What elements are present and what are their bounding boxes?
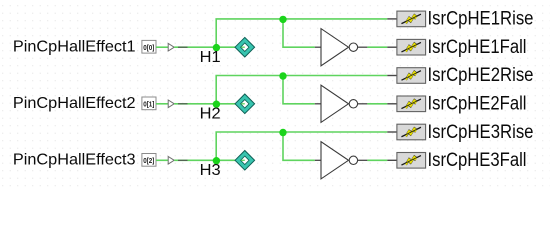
svg-text:IsrCpHE2Fall: IsrCpHE2Fall	[428, 94, 527, 115]
junction on rail	[279, 129, 286, 136]
wire pin arrow to node H2	[174, 103, 245, 105]
pin stub	[178, 159, 188, 161]
svg-text:0[1]: 0[1]	[143, 102, 154, 109]
svg-text:IsrCpHE1Fall: IsrCpHE1Fall	[428, 37, 527, 58]
wire pin arrow to node H3	[174, 159, 245, 161]
inverter U2	[321, 85, 367, 122]
interrupt block IsrCpHE1Fall	[387, 37, 526, 58]
junction on rail	[279, 16, 286, 23]
svg-text:IsrCpHE3Fall: IsrCpHE3Fall	[428, 150, 527, 171]
svg-text:H3: H3	[200, 162, 221, 179]
interrupt block IsrCpHE2Fall	[387, 94, 526, 115]
pin label PinCpHallEffect3	[13, 152, 136, 169]
label H2	[200, 106, 221, 123]
svg-text:IsrCpHE2Rise: IsrCpHE2Rise	[428, 65, 534, 86]
svg-text:IsrCpHE3Rise: IsrCpHE3Rise	[428, 122, 534, 143]
wire rail junction to IsrCpHE2Rise	[283, 75, 387, 77]
wire node H3 up to rail junction	[216, 132, 283, 160]
inverter U3 input stub	[315, 159, 321, 161]
pin label PinCpHallEffect2	[13, 95, 136, 112]
wire port to pin arrow	[156, 103, 168, 105]
svg-text:H1: H1	[200, 49, 221, 66]
wire inverter to IsrCpHE1Fall	[367, 46, 387, 48]
junction node H2	[213, 101, 220, 108]
junction node H1	[213, 44, 220, 51]
probe diamond H2	[235, 94, 255, 114]
pin stub	[178, 103, 188, 105]
wire port to pin arrow	[156, 46, 168, 48]
probe diamond H1	[235, 37, 255, 57]
svg-text:IsrCpHE1Rise: IsrCpHE1Rise	[428, 9, 534, 30]
inverter U1 input stub	[315, 46, 321, 48]
wire inverter to IsrCpHE3Fall	[367, 159, 387, 161]
wire node H1 up to rail junction	[216, 19, 283, 47]
wire rail junction down to inverter input	[283, 76, 315, 104]
interrupt block IsrCpHE3Rise	[387, 122, 533, 143]
interrupt block IsrCpHE3Fall	[387, 150, 526, 171]
wire rail junction to IsrCpHE1Rise	[283, 18, 387, 20]
wire node H2 up to rail junction	[216, 76, 283, 104]
wire pin arrow to node H1	[174, 46, 245, 48]
port 0[1]	[142, 97, 156, 110]
pin arrow	[168, 157, 174, 165]
wire rail junction to IsrCpHE3Rise	[283, 131, 387, 133]
svg-text:PinCpHallEffect1: PinCpHallEffect1	[13, 38, 136, 55]
interrupt block IsrCpHE1Rise	[387, 9, 533, 30]
pin arrow	[168, 100, 174, 108]
pin stub	[178, 46, 188, 48]
junction on rail	[279, 72, 286, 79]
svg-text:PinCpHallEffect3: PinCpHallEffect3	[13, 152, 136, 169]
port 0[0]	[142, 40, 156, 53]
wire rail junction down to inverter input	[283, 19, 315, 47]
label H1	[200, 49, 221, 66]
svg-text:H2: H2	[200, 106, 221, 123]
probe diamond H3	[235, 151, 255, 171]
svg-text:0[2]: 0[2]	[143, 158, 154, 165]
inverter U3	[321, 142, 367, 179]
svg-text:PinCpHallEffect2: PinCpHallEffect2	[13, 95, 136, 112]
port 0[2]	[142, 154, 156, 167]
pin label PinCpHallEffect1	[13, 38, 136, 55]
inverter U2 input stub	[315, 103, 321, 105]
label H3	[200, 162, 221, 179]
inverter U1	[321, 29, 367, 66]
pin arrow	[168, 43, 174, 51]
wire rail junction down to inverter input	[283, 132, 315, 160]
wire inverter to IsrCpHE2Fall	[367, 103, 387, 105]
wire port to pin arrow	[156, 159, 168, 161]
interrupt block IsrCpHE2Rise	[387, 65, 533, 86]
svg-text:0[0]: 0[0]	[143, 45, 154, 52]
junction node H3	[213, 157, 220, 164]
